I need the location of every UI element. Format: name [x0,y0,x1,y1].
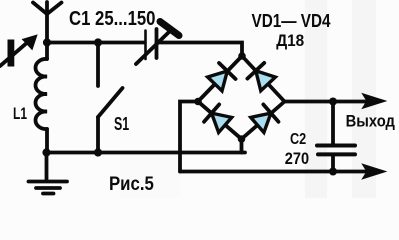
output arrow top [364,95,385,108]
diode VD2 (top-right) [247,63,276,92]
wire: bottom output rail [180,170,372,174]
wire: top rail (antenna to C1) [47,41,144,45]
node: antenna junction [43,38,51,46]
node: C2 top junction [329,98,337,106]
bridge edge bottom-right [242,102,285,140]
node: S1 bottom junction [94,148,102,156]
node: bridge top corner [238,52,246,60]
diode VD1 (top-left) [207,63,236,92]
tuning arrow [0,36,37,67]
wire antenna to coil [45,43,49,60]
wire: bridge right corner to output [285,100,373,104]
svg-text:270: 270 [285,149,309,168]
ground symbol [29,153,68,194]
node: bridge bottom corner [238,135,246,143]
svg-text:Выход: Выход [346,112,395,131]
node: bridge left corner [194,98,202,106]
wire stub bridge bottom corner [240,139,244,153]
switch S1 [98,43,123,153]
capacitor C1 plates [146,29,157,59]
output arrow bottom [364,165,385,178]
wire: C1 to bridge top [157,43,243,57]
capacitor C2 [317,102,355,172]
svg-text:Д18: Д18 [276,32,304,50]
wire coil to ground rail [45,129,49,153]
bridge edge bottom-left [198,102,242,140]
node: C2 bottom junction [329,168,337,176]
ferrite rod bar [8,40,15,67]
antenna WA1 [33,2,62,43]
svg-text:L1: L1 [13,104,27,123]
bridge edge top-left [198,56,242,102]
inductor L1 [35,59,47,129]
node: S1 top junction [94,38,102,46]
svg-text:C1 25...150: C1 25...150 [69,8,156,30]
bridge edge top-right [242,56,285,102]
svg-text:Рис.5: Рис.5 [109,174,154,195]
svg-text:S1: S1 [114,114,129,134]
wire: bridge left corner to bottom rail [180,102,198,172]
svg-text:C2: C2 [290,131,306,148]
wire: ground rail to bridge bottom [47,151,246,155]
diode VD3 (bottom-left) [204,104,233,133]
svg-text:VD1— VD4: VD1— VD4 [252,11,331,31]
diode VD4 (bottom-right) [250,104,279,133]
trimmer arrow of C1 [136,22,179,65]
node: ground junction [42,148,50,156]
